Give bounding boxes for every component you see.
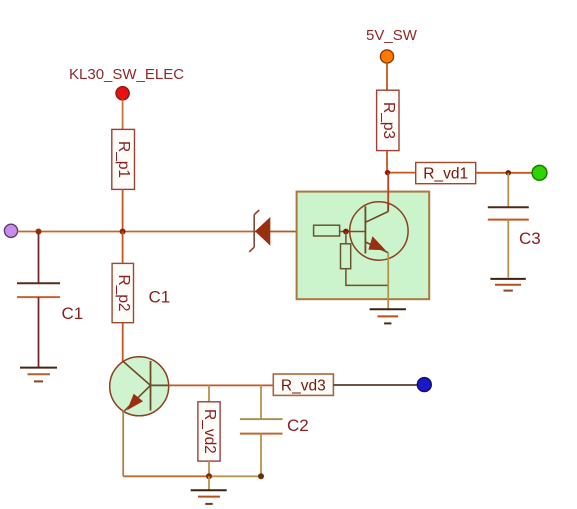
wire Q2 emitter down [122, 411, 124, 476]
wire node to R_p2 [122, 232, 124, 264]
ground bottom [191, 490, 227, 504]
junction base node [343, 229, 349, 235]
port dot output2 (blue) [417, 378, 431, 392]
ground under C1 [20, 368, 57, 382]
resistor R_p1 [112, 129, 135, 189]
capacitor C2 [240, 385, 283, 476]
wire main horizontal [18, 231, 255, 233]
zener diode D1 [249, 210, 270, 252]
wire vertical resistor to emitter [346, 269, 388, 286]
junction C3 branch [506, 170, 511, 175]
resistor base-emitter (in box, vertical) [341, 244, 351, 269]
wire R_p2 to Q2 collector [122, 323, 124, 362]
svg-text:5V_SW: 5V_SW [366, 27, 418, 44]
wire 5V dot to R_p3 [386, 63, 388, 90]
resistor R_vd2 [198, 402, 220, 461]
resistor R_vd1 [416, 163, 476, 184]
svg-text:R_vd1: R_vd1 [423, 166, 468, 183]
IC box (green block) [297, 192, 430, 300]
wire R_p3 to node [386, 151, 388, 173]
wire base resistor to bar [340, 231, 366, 233]
wire node to R_vd1 [387, 172, 416, 174]
port dot input (purple) [4, 224, 17, 237]
wire collector down into box [387, 173, 389, 203]
port dot 5V_SW (orange) [380, 50, 393, 63]
svg-text:R_vd2: R_vd2 [201, 409, 218, 454]
resistor R_p3 [377, 90, 399, 150]
wire R_vd2 to bottom rail [208, 461, 210, 476]
wire junction to vertical resistor [345, 232, 347, 244]
svg-text:C2: C2 [287, 416, 309, 435]
svg-text:C1: C1 [62, 304, 84, 323]
wire stem to ground bottom [208, 476, 210, 490]
svg-text:R_vd3: R_vd3 [281, 378, 326, 395]
svg-text:C3: C3 [519, 229, 541, 248]
wire stem to R_vd2 [208, 385, 210, 401]
wire Q1 emitter to ground [387, 253, 389, 310]
junction C1 branch [36, 229, 42, 235]
svg-text:R_p1: R_p1 [115, 141, 132, 178]
wire R_p1 to main node [122, 189, 124, 231]
ground under C3 [490, 279, 525, 291]
svg-text:C1: C1 [149, 288, 171, 307]
transistor Q1 (in box) [350, 202, 408, 260]
wire diode to base resistor [254, 231, 314, 233]
transistor Q2 [110, 357, 169, 416]
capacitor C3 [488, 173, 529, 278]
svg-text:R_p2: R_p2 [115, 275, 132, 312]
junction node collector [385, 170, 390, 175]
capacitor C1 [17, 232, 60, 368]
wire KL30 dot to R_p1 [122, 100, 124, 130]
wire bottom rail [123, 475, 209, 477]
junction bottom C2 [258, 473, 264, 479]
resistor base (in box, horizontal) [314, 225, 340, 236]
svg-text:KL30_SW_ELEC: KL30_SW_ELEC [69, 66, 184, 83]
svg-text:R_p3: R_p3 [380, 102, 397, 139]
junction bottom R_vd2 [206, 473, 212, 479]
port dot KL30_SW_ELEC [116, 87, 129, 100]
ground under IC box [370, 309, 406, 323]
resistor R_vd3 [273, 374, 333, 395]
junction R_p1/R_p2 node [120, 229, 126, 235]
wire Q2 base to R_vd3 [151, 384, 169, 386]
resistor R_p2 [112, 263, 133, 322]
wire R_vd1 to green dot [476, 172, 533, 174]
wire R_vd3 to blue dot [333, 384, 418, 386]
port dot output (green) [532, 165, 547, 180]
